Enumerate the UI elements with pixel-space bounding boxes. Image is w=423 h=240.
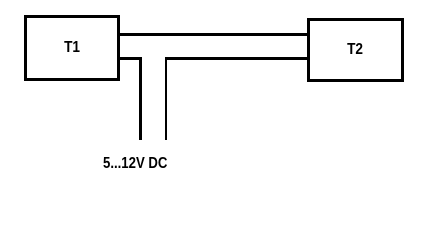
wire lower segment from T1 — [119, 57, 142, 59]
block T2 — [307, 18, 404, 82]
wire lower segment to T2 — [165, 57, 307, 59]
block T1 — [24, 15, 120, 81]
wire top bus T1 to T2 — [119, 33, 307, 35]
wire left supply drop — [139, 57, 142, 140]
label 5...12V DC supply value — [103, 155, 167, 173]
wire right supply drop — [165, 57, 168, 140]
